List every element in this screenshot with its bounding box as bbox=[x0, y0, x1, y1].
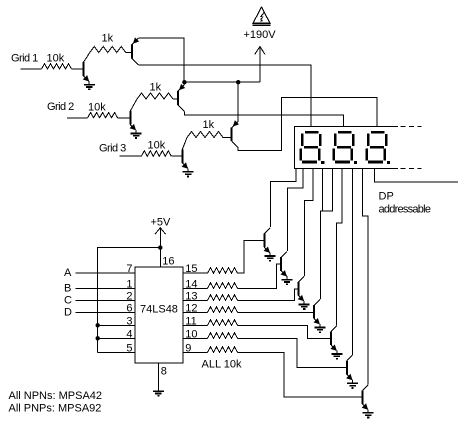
wire pin 12 to T4 base bbox=[238, 311, 315, 313]
wire input B to pin 1 bbox=[76, 287, 135, 289]
wire pin 11 to T5 base bbox=[238, 325, 332, 338]
wire Grid2 input bbox=[67, 117, 88, 119]
wire R5 to P2 base bbox=[173, 98, 178, 100]
svg-text:3: 3 bbox=[126, 315, 132, 327]
high-voltage warning triangle bbox=[253, 7, 271, 25]
wire P1 collector to digit 1 grid bbox=[138, 65, 311, 126]
node junction rail/P3 bbox=[236, 80, 240, 84]
wire pin 14 to T2 base bbox=[238, 264, 282, 288]
transistor T5 (NPN MPSA42) bbox=[330, 332, 336, 354]
resistor 10k at pin 9 bbox=[208, 347, 238, 353]
wire segment W6 from display bbox=[337, 169, 343, 326]
wire pin 14 stub bbox=[183, 287, 207, 289]
display outline continuation dashes top bbox=[401, 125, 422, 127]
wire pin 13 to T3 base bbox=[238, 289, 299, 301]
wire pin 4 stub bbox=[98, 337, 135, 339]
svg-text:addressable: addressable bbox=[379, 204, 432, 216]
power +5V arrow bbox=[155, 228, 166, 248]
svg-text:ALL 10k: ALL 10k bbox=[202, 359, 242, 371]
transistor P3 (PNP MPSA92) bbox=[232, 120, 239, 147]
transistor T4 (NPN MPSA42) bbox=[314, 305, 320, 327]
transistor T6 (NPN MPSA42) bbox=[346, 361, 352, 383]
wire pin 11 stub bbox=[183, 324, 207, 326]
transistor Q2 (NPN MPSA42) bbox=[130, 111, 136, 133]
transistor T2 (NPN MPSA42) bbox=[281, 257, 287, 279]
svg-text:8: 8 bbox=[161, 366, 167, 378]
svg-text:All NPNs: MPSA42: All NPNs: MPSA42 bbox=[9, 390, 103, 402]
wire input C to pin 2 bbox=[76, 299, 135, 301]
svg-text:7: 7 bbox=[126, 263, 132, 275]
wire input A to pin 7 bbox=[76, 272, 135, 274]
svg-text:1: 1 bbox=[126, 278, 132, 290]
wire T5 collector diagonal bbox=[331, 326, 337, 332]
ground of T4 bbox=[315, 328, 326, 333]
svg-text:Grid 1: Grid 1 bbox=[11, 53, 38, 65]
wire R1 to Q1 base bbox=[72, 68, 84, 70]
wire P2 collector to digit 2 grid bbox=[184, 111, 343, 126]
wire segment W7 from display bbox=[351, 169, 353, 355]
wire pin 3 stub bbox=[98, 324, 135, 326]
svg-text:D: D bbox=[64, 306, 72, 318]
resistor R1 10k Grid1 bbox=[42, 64, 72, 69]
transistor T1 (NPN MPSA42) bbox=[264, 234, 270, 256]
wire segment W8 from display bbox=[362, 169, 368, 385]
node junction rail/P1/P2 bbox=[182, 80, 186, 84]
wire T4 collector diagonal bbox=[314, 299, 320, 305]
wire DP line to edge bbox=[375, 169, 458, 183]
wire segment W4 from display bbox=[322, 169, 324, 212]
display digit 3 (8.) bbox=[366, 131, 391, 164]
svg-text:10k: 10k bbox=[47, 53, 65, 65]
power +190V arrow bbox=[255, 47, 265, 83]
ground of Q1 bbox=[84, 85, 95, 90]
wire input D to pin 6 bbox=[76, 311, 135, 313]
transistor P1 (PNP MPSA92) bbox=[132, 37, 139, 64]
ground of T1 bbox=[265, 256, 276, 261]
wire Grid1 input bbox=[21, 68, 42, 70]
wire Q2 collector diagonal bbox=[130, 99, 137, 111]
svg-text:10k: 10k bbox=[148, 140, 166, 152]
resistor R2 10k Grid2 bbox=[88, 113, 118, 118]
wire pin 12 stub bbox=[183, 311, 207, 313]
svg-text:C: C bbox=[64, 294, 72, 306]
node junction tie/pin3 bbox=[96, 323, 100, 327]
wire segment W2 from display bbox=[288, 169, 303, 252]
svg-text:All PNPs: MPSA92: All PNPs: MPSA92 bbox=[9, 403, 102, 415]
resistor 10k at pin 15 bbox=[208, 268, 238, 274]
transistor P2 (PNP MPSA92) bbox=[178, 84, 185, 111]
wire pin 10 stub bbox=[183, 337, 207, 339]
svg-text:16: 16 bbox=[162, 255, 174, 267]
ground of T6 bbox=[347, 383, 358, 388]
ground at pin 8 bbox=[153, 391, 164, 396]
wire pin 15 to T1 base bbox=[238, 240, 265, 273]
svg-text:1k: 1k bbox=[102, 33, 114, 45]
ground of Q2 bbox=[131, 133, 142, 138]
wire pin 9 to T7 base bbox=[238, 352, 363, 397]
wire P3 emitter to +190V rail bbox=[237, 82, 239, 121]
resistor 10k at pin 14 bbox=[208, 283, 238, 289]
wire T7 collector diagonal bbox=[362, 385, 368, 391]
wire segment W1 from display bbox=[271, 169, 296, 228]
wire R3 to Q3 base bbox=[171, 155, 182, 157]
svg-text:B: B bbox=[64, 282, 71, 294]
svg-text:DP: DP bbox=[379, 191, 394, 203]
wire pin 10 to T6 base bbox=[238, 338, 347, 367]
resistor 10k at pin 11 bbox=[208, 320, 238, 326]
node junction tie/pin4 bbox=[96, 336, 100, 340]
display module outline bbox=[295, 126, 398, 168]
svg-text:1k: 1k bbox=[203, 119, 215, 131]
resistor 10k at pin 13 bbox=[208, 295, 238, 301]
wire Q3 collector diagonal bbox=[182, 138, 187, 150]
resistor 10k at pin 10 bbox=[208, 333, 238, 339]
ground of T3 bbox=[299, 304, 310, 309]
wire P2 emitter to +190V rail bbox=[183, 82, 185, 85]
display digit 1 (8.) bbox=[300, 131, 325, 164]
transistor T7 (NPN MPSA42) bbox=[362, 390, 368, 412]
display outline continuation dashes bottom bbox=[401, 168, 422, 170]
wire +190V rail bbox=[184, 81, 260, 83]
wire Grid3 input bbox=[120, 155, 142, 157]
display digit 2 (8.) bbox=[333, 131, 358, 164]
svg-text:6: 6 bbox=[126, 302, 132, 314]
ground of T5 bbox=[331, 354, 342, 359]
wire pin 15 stub bbox=[183, 272, 207, 274]
node junction +5V/pin16 bbox=[158, 245, 162, 249]
wire P3 collector to digit 3 grid bbox=[238, 97, 377, 150]
wire P1 emitter to +190V rail bbox=[138, 38, 184, 82]
wire pin 9 stub bbox=[183, 351, 207, 353]
resistor R6 1k Grid3 bbox=[187, 132, 225, 138]
wire T6 collector diagonal bbox=[347, 355, 353, 361]
wire R4 to P1 base bbox=[126, 52, 132, 54]
transistor Q3 (NPN MPSA42) bbox=[182, 149, 188, 171]
svg-text:74LS48: 74LS48 bbox=[140, 304, 178, 316]
wire pin 16 bbox=[159, 248, 161, 267]
resistor R4 1k Grid1 bbox=[90, 47, 127, 53]
ground of T2 bbox=[282, 280, 293, 285]
svg-text:+5V: +5V bbox=[151, 217, 172, 229]
resistor R5 1k Grid2 bbox=[137, 93, 173, 99]
svg-text:Grid 3: Grid 3 bbox=[99, 143, 126, 155]
transistor T3 (NPN MPSA42) bbox=[298, 282, 304, 304]
wire R6 to P3 base bbox=[224, 137, 232, 139]
wire pins 3,4,5 tie to +5V bbox=[98, 247, 161, 352]
wire pin 5 stub bbox=[98, 351, 135, 353]
svg-text:5: 5 bbox=[126, 342, 132, 354]
wire R2 to Q2 base bbox=[118, 117, 131, 119]
svg-text:1k: 1k bbox=[150, 82, 162, 94]
svg-text:4: 4 bbox=[126, 328, 132, 340]
wire segment W5 from display bbox=[320, 169, 332, 299]
wire segment W3 from display bbox=[305, 169, 313, 276]
wire pin 13 stub bbox=[183, 299, 207, 301]
resistor R3 10k Grid3 bbox=[141, 151, 171, 156]
wire T1 collector diagonal bbox=[264, 228, 270, 234]
svg-text:10k: 10k bbox=[88, 102, 106, 114]
ground of Q3 bbox=[183, 172, 194, 177]
svg-text:2: 2 bbox=[126, 290, 132, 302]
wire T3 collector diagonal bbox=[298, 276, 304, 282]
wire T2 collector diagonal bbox=[281, 252, 287, 258]
wire Q1 collector diagonal bbox=[84, 53, 90, 63]
resistor 10k at pin 12 bbox=[208, 307, 238, 313]
transistor Q1 (NPN MPSA42) bbox=[83, 62, 89, 84]
op-amp U1 74LS48 outline bbox=[135, 267, 183, 363]
ground of T7 bbox=[363, 413, 374, 418]
svg-text:+190V: +190V bbox=[244, 29, 277, 41]
svg-text:A: A bbox=[64, 267, 72, 279]
svg-text:Grid 2: Grid 2 bbox=[47, 101, 74, 113]
wire pin 8 bbox=[157, 363, 159, 391]
